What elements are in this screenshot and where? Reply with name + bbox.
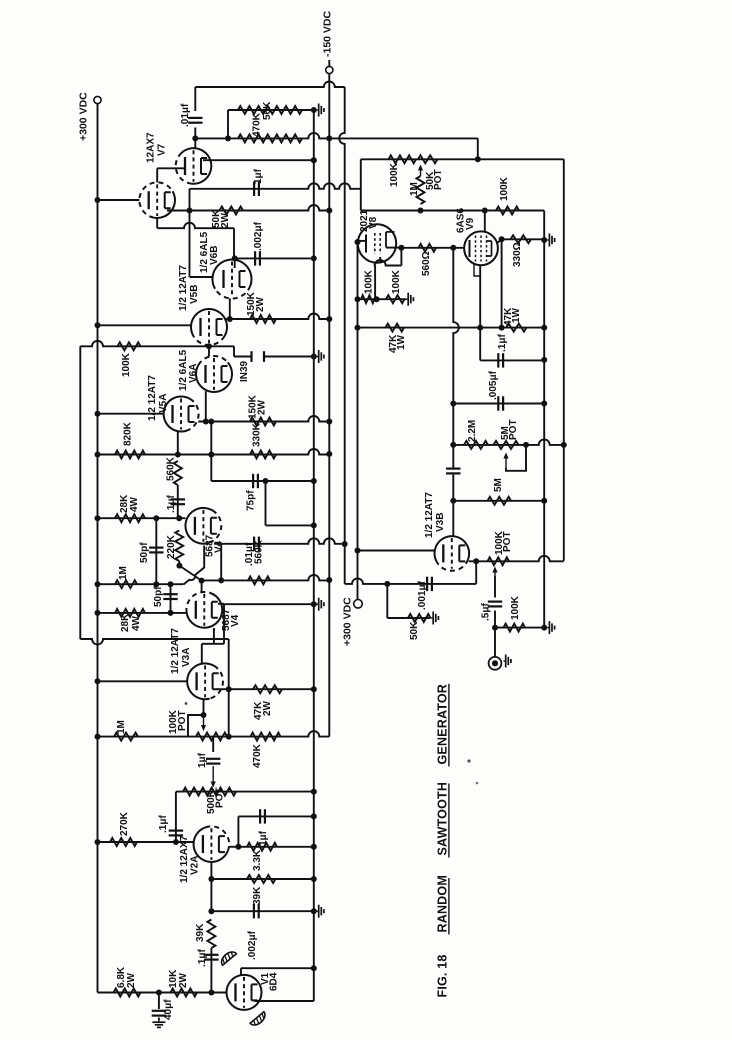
svg-text:POT: POT xyxy=(433,169,444,190)
svg-text:220K: 220K xyxy=(166,534,177,559)
svg-text:POT: POT xyxy=(508,419,519,440)
svg-text:.1μf: .1μf xyxy=(158,815,169,833)
svg-text:1M: 1M xyxy=(409,182,420,196)
svg-text:40μf: 40μf xyxy=(163,999,174,1020)
svg-text:5M: 5M xyxy=(493,478,504,492)
svg-text:100K: 100K xyxy=(121,352,132,377)
svg-text:75pf: 75pf xyxy=(245,490,256,511)
svg-text:.1μf: .1μf xyxy=(497,334,508,352)
svg-text:100K: 100K xyxy=(510,595,521,620)
svg-text:V3B: V3B xyxy=(435,513,446,532)
svg-text:560K: 560K xyxy=(253,539,264,564)
svg-text:270K: 270K xyxy=(119,811,130,836)
svg-text:V8: V8 xyxy=(368,216,379,229)
svg-text:39K: 39K xyxy=(195,923,206,942)
svg-text:GENERATOR: GENERATOR xyxy=(435,684,449,765)
svg-text:FIG. 18: FIG. 18 xyxy=(435,954,449,997)
svg-text:1W: 1W xyxy=(511,307,522,323)
svg-text:2W: 2W xyxy=(256,399,267,415)
svg-text:1/2 12AT7: 1/2 12AT7 xyxy=(178,265,189,311)
svg-text:V9: V9 xyxy=(465,217,476,230)
svg-text:100K: 100K xyxy=(389,162,400,187)
svg-text:6D4: 6D4 xyxy=(268,972,279,991)
svg-text:-150 VDC: -150 VDC xyxy=(321,10,333,57)
svg-text:V5A: V5A xyxy=(158,394,169,413)
svg-text:560Ω: 560Ω xyxy=(421,251,432,276)
svg-text:.002μf: .002μf xyxy=(247,930,258,960)
svg-text:V5B: V5B xyxy=(189,285,200,304)
svg-text:1M: 1M xyxy=(118,566,129,580)
svg-text:.001μf: .001μf xyxy=(417,580,428,610)
svg-text:.01μf: .01μf xyxy=(180,103,191,127)
svg-text:V7: V7 xyxy=(156,143,167,156)
svg-text:+300 VDC: +300 VDC xyxy=(77,92,89,141)
svg-text:1M: 1M xyxy=(116,720,127,734)
svg-text:4W: 4W xyxy=(131,615,142,631)
svg-text:28K: 28K xyxy=(120,613,131,632)
svg-text:820K: 820K xyxy=(122,421,133,446)
svg-text:4W: 4W xyxy=(129,496,140,512)
svg-text:2W: 2W xyxy=(262,700,273,716)
svg-text:+300 VDC: +300 VDC xyxy=(341,597,353,646)
svg-text:1/2 12AT7: 1/2 12AT7 xyxy=(424,492,435,538)
svg-text:1W: 1W xyxy=(396,334,407,350)
svg-text:330K: 330K xyxy=(251,422,262,447)
svg-text:330Ω: 330Ω xyxy=(512,242,523,267)
svg-text:1μf: 1μf xyxy=(197,752,208,768)
svg-text:39K: 39K xyxy=(252,886,263,905)
svg-text:IN39: IN39 xyxy=(239,360,250,382)
svg-text:.002μf: .002μf xyxy=(253,221,264,251)
svg-text:V6B: V6B xyxy=(209,246,220,265)
svg-text:1/2 12AT7: 1/2 12AT7 xyxy=(170,628,181,674)
svg-text:RANDOM: RANDOM xyxy=(435,875,449,932)
svg-text:2W: 2W xyxy=(220,212,231,228)
svg-text:56K: 56K xyxy=(262,101,273,120)
svg-text:2.2M: 2.2M xyxy=(467,420,478,442)
svg-text:.005μf: .005μf xyxy=(488,370,499,400)
svg-text:100K: 100K xyxy=(499,176,510,201)
svg-text:V2A: V2A xyxy=(189,856,200,875)
svg-text:2W: 2W xyxy=(126,972,137,988)
svg-text:POT: POT xyxy=(502,531,513,552)
svg-text:470K: 470K xyxy=(252,743,263,768)
svg-text:V6A: V6A xyxy=(188,364,199,383)
svg-text:V3A: V3A xyxy=(181,648,192,667)
svg-text:100K: 100K xyxy=(391,269,402,294)
svg-text:.5μf: .5μf xyxy=(480,603,491,621)
svg-text:12AX7: 12AX7 xyxy=(145,132,156,163)
svg-text:.1μf: .1μf xyxy=(166,495,177,513)
svg-text:V4: V4 xyxy=(213,540,224,553)
svg-text:470K: 470K xyxy=(251,112,262,137)
svg-text:560K: 560K xyxy=(165,456,176,481)
svg-text:50pf: 50pf xyxy=(153,586,164,607)
svg-text:V4: V4 xyxy=(230,614,241,627)
svg-text:POT: POT xyxy=(177,710,188,731)
svg-text:3.3K: 3.3K xyxy=(252,849,263,871)
svg-text:50pf: 50pf xyxy=(139,542,150,563)
svg-text:2W: 2W xyxy=(255,296,266,312)
svg-text:2W: 2W xyxy=(178,972,189,988)
svg-text:.1μf: .1μf xyxy=(197,949,208,967)
svg-text:1μf: 1μf xyxy=(253,168,264,184)
svg-text:100K: 100K xyxy=(363,269,374,294)
svg-text:SAWTOOTH: SAWTOOTH xyxy=(435,782,449,856)
svg-text:POT: POT xyxy=(214,787,225,808)
svg-text:50K: 50K xyxy=(409,621,420,640)
